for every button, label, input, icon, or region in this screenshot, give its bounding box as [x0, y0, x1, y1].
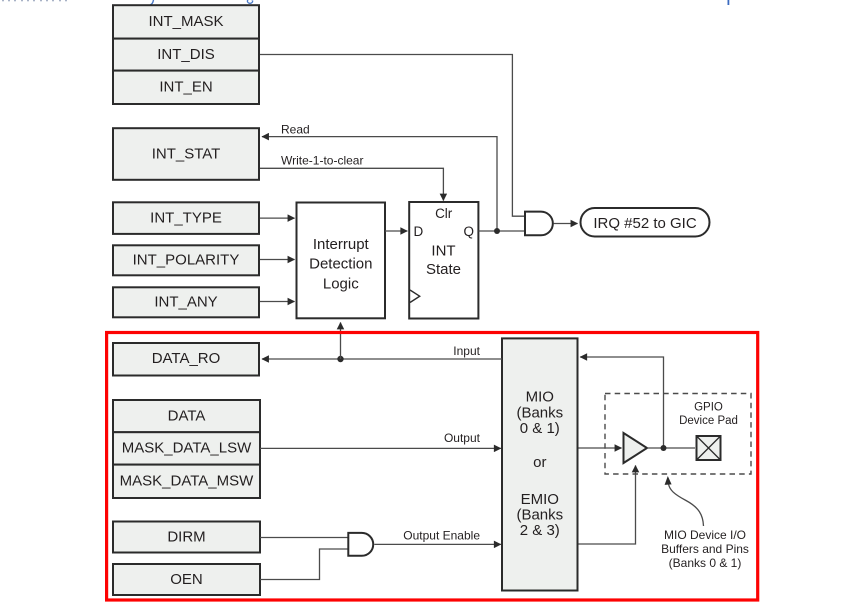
svg-text:INT_STAT: INT_STAT — [152, 145, 221, 162]
wire INT_DIS to AND gate — [260, 55, 524, 217]
svg-text:MIO: MIO — [526, 389, 554, 406]
svg-text:DATA_RO: DATA_RO — [152, 350, 221, 367]
svg-text:Output Enable: Output Enable — [403, 529, 480, 543]
svg-text:Output: Output — [444, 431, 481, 445]
register DATA — [113, 400, 260, 432]
svg-text:INT_TYPE: INT_TYPE — [150, 210, 222, 227]
svg-text:0 & 1): 0 & 1) — [520, 420, 560, 437]
clock chevron — [410, 290, 420, 303]
svg-text:Clr: Clr — [435, 206, 453, 221]
wire buffer to pad — [647, 447, 695, 449]
register INT_ANY — [113, 287, 259, 317]
wire Read (from Q node to INT_STAT) — [262, 137, 497, 231]
register DATA_RO — [113, 343, 259, 376]
AND gate G1 (interrupt) — [525, 212, 553, 236]
wire detection logic to D input — [385, 230, 407, 232]
cut-off header text remnants (top edge) — [2, 0, 729, 5]
register INT_STAT — [113, 128, 259, 180]
svg-text:INT_POLARITY: INT_POLARITY — [133, 252, 240, 269]
svg-text:MIO Device I/O: MIO Device I/O — [664, 528, 746, 542]
svg-text:Read: Read — [281, 123, 310, 137]
buffer Q1 (output driver triangle) — [624, 433, 648, 463]
register MASK_DATA_MSW — [113, 465, 260, 498]
register DIRM — [113, 522, 260, 553]
red highlight frame — [107, 333, 758, 601]
node pad junction — [661, 445, 667, 451]
pad GPIO device pad — [697, 436, 721, 460]
dashed box MIO buffers and pins — [605, 394, 751, 475]
svg-text:Input: Input — [453, 344, 480, 358]
terminal IRQ #52 to GIC — [581, 208, 710, 237]
node Q junction — [494, 228, 500, 234]
register INT_EN — [113, 71, 259, 104]
svg-text:or: or — [533, 454, 546, 471]
svg-text:MASK_DATA_LSW: MASK_DATA_LSW — [122, 440, 252, 457]
wire INT_ANY to detection logic — [260, 301, 295, 303]
register OEN — [113, 564, 260, 595]
wire Write-1-to-clear (INT_STAT to Clr) — [260, 168, 443, 200]
wire Output Enable (AND gate to MIO) — [374, 543, 501, 545]
svg-text:Device Pad: Device Pad — [679, 415, 738, 427]
wire AND gate to IRQ — [554, 223, 578, 225]
wire Input (MIO to DATA_RO) — [262, 358, 502, 360]
flip-flop U2 INT State — [409, 202, 478, 319]
wire OEN to AND gate — [260, 549, 348, 580]
register INT_MASK — [113, 5, 259, 38]
svg-text:MASK_DATA_MSW: MASK_DATA_MSW — [120, 473, 254, 490]
svg-text:Q: Q — [464, 224, 475, 239]
svg-text:Buffers and Pins: Buffers and Pins — [661, 542, 749, 556]
wire INT_POLARITY to detection logic — [260, 259, 295, 261]
svg-text:GPIO: GPIO — [694, 402, 723, 414]
wire DIRM to AND gate — [260, 537, 348, 539]
svg-text:INT_EN: INT_EN — [159, 79, 212, 96]
callout curved arrow to buffers — [669, 485, 704, 527]
svg-text:D: D — [414, 224, 424, 239]
svg-text:IRQ #52 to GIC: IRQ #52 to GIC — [593, 215, 697, 232]
svg-text:DATA: DATA — [168, 407, 206, 424]
AND gate G2 (output enable) — [348, 533, 373, 556]
register INT_POLARITY — [113, 245, 259, 275]
svg-text:INT: INT — [431, 243, 455, 260]
register MASK_DATA_LSW — [113, 432, 260, 464]
node Input junction — [337, 356, 343, 362]
wire MIO to output buffer — [579, 447, 622, 449]
svg-text:INT_MASK: INT_MASK — [148, 13, 223, 30]
svg-text:Detection: Detection — [309, 256, 372, 273]
svg-text:2 & 3): 2 & 3) — [520, 522, 560, 539]
svg-text:(Banks 0 & 1): (Banks 0 & 1) — [669, 556, 742, 570]
svg-text:EMIO: EMIO — [521, 491, 559, 508]
wire pad feedback into MIO (input path) — [580, 357, 663, 448]
register INT_DIS — [113, 39, 259, 71]
svg-text:Write-1-to-clear: Write-1-to-clear — [281, 154, 363, 168]
wire Output (MASK_DATA_LSW to MIO) — [260, 447, 501, 449]
svg-text:DIRM: DIRM — [167, 529, 205, 546]
register INT_TYPE — [113, 202, 259, 234]
label GPIO Device Pad — [679, 402, 738, 428]
block MIO / EMIO — [502, 338, 578, 590]
svg-text:State: State — [426, 261, 461, 278]
wire MIO output enable to buffer — [579, 466, 636, 545]
wire INT_TYPE to detection logic — [260, 217, 295, 219]
svg-text:INT_ANY: INT_ANY — [154, 294, 217, 311]
label MIO Device I/O Buffers and Pins — [661, 528, 749, 570]
svg-text:Interrupt: Interrupt — [313, 236, 370, 253]
svg-text:Logic: Logic — [323, 275, 359, 292]
block U1 Interrupt Detection Logic — [297, 203, 386, 319]
wire Q output to AND gate — [479, 230, 525, 232]
svg-text:INT_DIS: INT_DIS — [157, 46, 215, 63]
wire Input branch up to detection logic — [340, 323, 342, 360]
svg-text:OEN: OEN — [170, 571, 203, 588]
